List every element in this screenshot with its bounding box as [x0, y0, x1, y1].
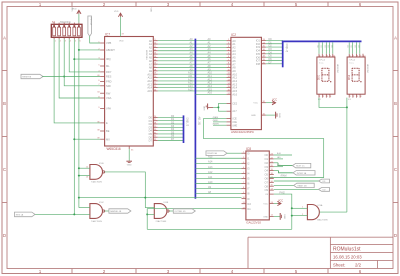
svg-text:IC6B: IC6B: [163, 202, 168, 204]
svg-text:2: 2: [353, 96, 354, 98]
op IC2 SRAM AS6C1024 body: [231, 33, 262, 134]
junction IC5A A: [291, 207, 293, 209]
wire IC6B output to flag: [169, 210, 173, 212]
labels A0-A15 left of bus: [188, 38, 193, 91]
junction S1-3/RES: [63, 76, 65, 78]
junction displays common: [346, 106, 348, 108]
svg-text:D4: D4: [331, 45, 333, 47]
flag RESET/B (bottom left): [15, 212, 36, 217]
op DIS2 7-segment display: [347, 54, 368, 101]
junction long row left: [78, 197, 80, 199]
svg-text:C: C: [394, 167, 397, 172]
wire PHI2 to IC5A input A: [292, 207, 308, 209]
wire RES flag to IC7 VPB pin: [90, 36, 100, 43]
svg-text:A12: A12: [208, 171, 213, 174]
wire RESET/B row to IC6C input B: [35, 213, 90, 215]
wire S1-6 net to IC6D input A: [79, 167, 90, 169]
svg-text:MU/T 1C: MU/T 1C: [296, 166, 305, 168]
svg-text:VDD: VDD: [72, 6, 74, 11]
svg-text:IRQ: IRQ: [106, 57, 111, 61]
junction IC6D A: [78, 167, 80, 169]
svg-text:VDD: VDD: [150, 8, 152, 13]
svg-text:DIS1: DIS1: [319, 74, 321, 80]
svg-text:D7: D7: [358, 45, 360, 47]
svg-text:1: 1: [319, 96, 320, 98]
svg-text:D7: D7: [149, 139, 153, 143]
gate IC6D NAND: [86, 163, 105, 184]
svg-text:37: 37: [122, 34, 125, 36]
svg-text:5: 5: [75, 41, 77, 43]
svg-text:VDD: VDD: [114, 11, 119, 13]
svg-text:RDY: RDY: [106, 70, 112, 74]
svg-text:7: 7: [323, 56, 324, 58]
svg-text:W65C816: W65C816: [145, 50, 147, 61]
svg-text:VCC: VCC: [278, 199, 283, 202]
svg-text:74ACT08N: 74ACT08N: [317, 219, 328, 222]
wires bus DB to DIS2 pins: [348, 42, 361, 54]
supply VDD arrow (DIP): [72, 9, 81, 14]
svg-text:D6: D6: [355, 45, 357, 47]
svg-text:DIS2: DIS2: [349, 74, 351, 80]
wire O0 with label A16: [274, 152, 292, 155]
svg-text:3: 3: [327, 96, 328, 98]
svg-text:1: 1: [350, 96, 351, 98]
svg-text:INTER 3A: INTER 3A: [297, 172, 307, 175]
op IC8 GAL22V10 body: [246, 147, 269, 225]
gate IC6B NAND: [154, 202, 169, 223]
svg-text:VCC: VCC: [272, 99, 277, 102]
svg-text:IC8: IC8: [246, 147, 251, 151]
svg-text:A17: A17: [232, 110, 237, 113]
svg-text:RES: RES: [106, 75, 112, 79]
svg-text:S1: S1: [52, 20, 56, 24]
svg-text:B: B: [394, 101, 397, 106]
wire IC6B input B: [147, 213, 154, 215]
svg-text:D2: D2: [325, 45, 327, 47]
svg-text:10: 10: [333, 56, 335, 58]
title block: [248, 237, 393, 268]
junction S1-5 at RESET/B row: [73, 213, 75, 215]
svg-text:/RAM: /RAM: [281, 174, 287, 177]
IC2 left pins A0-A16 and control: [226, 39, 237, 128]
ground GND (CE2 tie): [204, 104, 213, 111]
svg-text:3: 3: [65, 41, 67, 43]
svg-text:4: 4: [70, 41, 72, 43]
svg-text:I11: I11: [247, 207, 251, 211]
svg-text:O9: O9: [265, 188, 269, 192]
svg-text:O7: O7: [265, 180, 269, 184]
IC2 right pins IO1-IO8: [256, 39, 266, 66]
svg-text:W65C816: W65C816: [107, 147, 121, 151]
svg-text:E: E: [106, 121, 108, 125]
svg-text:D1: D1: [321, 45, 323, 47]
supply VCC (IC8): [271, 199, 284, 205]
flag MUX 1C: [293, 163, 311, 167]
wire S1-6 net to IC6D input B: [79, 175, 90, 177]
svg-text:Sheet:: Sheet:: [333, 262, 345, 267]
svg-text:O4: O4: [265, 169, 269, 173]
gate IC6C NAND: [90, 202, 105, 223]
svg-text:/WE: /WE: [232, 123, 237, 127]
svg-text:A14: A14: [208, 161, 213, 164]
bus DB[0..7] (horizontal to displays): [282, 40, 362, 42]
flag RESET (left): [21, 74, 43, 78]
wire displays common to IC5A output: [346, 107, 348, 212]
flag RAMT 4B: [294, 183, 315, 187]
svg-text:VCC: VCC: [263, 204, 268, 206]
svg-text:C: C: [3, 167, 6, 172]
IC8 left pins: [242, 151, 252, 211]
svg-text:MX: MX: [106, 137, 110, 141]
wire VDD to S1 pin6: [78, 14, 80, 23]
bus stubs A15-A8 to IC8: [195, 156, 241, 194]
supply VCC (IC2): [253, 99, 277, 105]
wires bus DB to DIS1 pins: [318, 42, 334, 54]
svg-text:9: 9: [330, 56, 331, 58]
svg-text:16.08.15 20:03: 16.08.15 20:03: [333, 254, 362, 259]
wire O2 to flag MUX: [274, 162, 278, 164]
junction S1-6 ABORT: [78, 49, 80, 51]
svg-text:6: 6: [350, 56, 351, 58]
svg-text:ML: ML: [106, 64, 110, 68]
svg-text:K K: K K: [318, 99, 322, 101]
svg-text:ABORT: ABORT: [106, 48, 115, 52]
svg-text:/DS: /DS: [277, 165, 281, 167]
svg-text:RAMT 4B: RAMT 4B: [298, 184, 308, 187]
gate IC5A AND: [302, 204, 328, 222]
ground GND (IC7): [126, 146, 134, 167]
svg-text:GND: GND: [283, 214, 285, 219]
dip switch S1: [51, 20, 82, 42]
junction S1-5 MX: [73, 138, 75, 140]
svg-text:IC6C: IC6C: [99, 202, 104, 204]
svg-text:13: 13: [86, 177, 89, 179]
bus DB[0..7] (left): [184, 115, 189, 143]
svg-text:A13: A13: [208, 166, 213, 169]
svg-text:/RAM: /RAM: [213, 116, 219, 119]
flag INTER 3A: [293, 171, 315, 175]
wire VDD to IC7 top: [120, 17, 122, 37]
wire S1-6 net to IC6C input A: [79, 207, 90, 209]
svg-text:A15: A15: [147, 89, 152, 93]
svg-text:2: 2: [323, 96, 324, 98]
svg-text:A10: A10: [208, 181, 213, 184]
wire IC6C output to flag: [105, 210, 109, 212]
xref flag RES (vertical): [88, 16, 93, 36]
svg-text:O8: O8: [265, 184, 269, 188]
wire CE2 tie net: [213, 103, 226, 111]
svg-text:D: D: [394, 233, 397, 238]
ground GND (IC8): [271, 213, 285, 220]
svg-text:A15: A15: [188, 88, 193, 91]
svg-text:IC2: IC2: [231, 33, 236, 37]
wire PHI2 from IC8: [274, 191, 292, 229]
svg-text:D3: D3: [328, 45, 330, 47]
svg-text:IC5A: IC5A: [318, 204, 323, 207]
svg-text:5: 5: [98, 64, 100, 66]
svg-text:GND: GND: [278, 113, 280, 118]
wire S1-3 to IC7 NMI: [64, 39, 100, 86]
svg-text:6: 6: [80, 41, 82, 43]
IC7 right pins A0-A15 and D0-D7: [147, 39, 157, 143]
svg-text:2/2: 2/2: [355, 262, 362, 267]
long net row to IC8 pin10: [79, 197, 242, 199]
bus DB[0..7] (right vertical): [282, 41, 284, 67]
svg-text:1: 1: [55, 41, 57, 43]
wire PHI2 to IC5A input B: [292, 215, 308, 217]
svg-text:6: 6: [98, 80, 100, 82]
svg-text:VCC: VCC: [253, 103, 258, 105]
flag OUTSEL: [173, 209, 195, 213]
bus A[0..15]: [195, 39, 200, 199]
labels A0-A15 right of bus: [208, 38, 213, 91]
svg-text:GND: GND: [127, 165, 132, 167]
svg-text:O1: O1: [265, 157, 269, 161]
svg-text:O2: O2: [265, 161, 269, 165]
wire S1-2 to IC7 VDA: [59, 39, 100, 98]
svg-text:DB[0..7]: DB[0..7]: [186, 118, 189, 127]
svg-text:RESET/B: RESET/B: [22, 77, 32, 79]
svg-text:/MWR: /MWR: [213, 123, 219, 125]
svg-text:7: 7: [353, 56, 354, 58]
svg-text:RAMSEL 4B: RAMSEL 4B: [110, 210, 122, 213]
svg-text:b c a: b c a: [319, 62, 323, 64]
svg-text:3: 3: [357, 96, 358, 98]
svg-text:34: 34: [97, 92, 100, 94]
svg-text:RES 1A: RES 1A: [89, 18, 92, 26]
svg-text:6: 6: [319, 56, 320, 58]
svg-text:I10: I10: [247, 202, 251, 206]
svg-text:B: B: [3, 101, 6, 106]
svg-text:HD1105O: HD1105O: [336, 64, 338, 73]
IC7 left pins: [97, 41, 115, 141]
wires D0-D7 IC7 to bus DB: [158, 115, 184, 141]
svg-text:PHI2: PHI2: [279, 191, 285, 194]
wire IC6D output right: [105, 172, 155, 208]
junction S1-5 IRQ: [73, 58, 75, 60]
svg-text:O5: O5: [265, 173, 269, 177]
svg-text:IC7: IC7: [105, 32, 110, 36]
svg-text:A16: A16: [208, 92, 213, 95]
wire O3 short: [274, 165, 283, 167]
wire /RAM from IC3 to IC2 /WE: [204, 119, 324, 178]
svg-text:A: A: [3, 36, 6, 41]
junction IC5A B: [291, 215, 293, 217]
wire DIS2 common down: [346, 98, 348, 108]
svg-text:VDD: VDD: [119, 41, 124, 43]
wires IO to bus DB right: [266, 38, 283, 64]
wire /WE stub with label: [213, 124, 226, 126]
svg-text:AS6C1024-55PC: AS6C1024-55PC: [231, 130, 255, 134]
wire S1-6 branch to IC7 ABORT: [79, 49, 100, 51]
flag OE2: [319, 188, 330, 192]
flag RDWR to IC8 pin1: [206, 151, 242, 156]
supply VDD arrow (IC7): [114, 11, 123, 17]
svg-text:GAL22V10: GAL22V10: [246, 221, 261, 225]
wire S1-6 vertical (to ABORT and gates): [78, 39, 80, 208]
svg-text:A11: A11: [208, 176, 213, 179]
svg-text:D4: D4: [348, 45, 350, 47]
svg-text:RES 1A: RES 1A: [16, 213, 24, 216]
svg-text:4: 4: [361, 96, 362, 98]
wires A0-A15 IC7 to IC2: [158, 41, 227, 91]
svg-text:O3: O3: [265, 165, 269, 169]
svg-text:D5: D5: [351, 45, 353, 47]
flag RAMSEL: [109, 209, 131, 213]
svg-text:HD1105O: HD1105O: [366, 64, 368, 73]
svg-text:/AS: /AS: [277, 156, 281, 159]
op IC7 CPU W65C816 body: [105, 32, 154, 151]
svg-text:OUTSEL 4D: OUTSEL 4D: [175, 211, 187, 213]
svg-text:74ACT00N: 74ACT00N: [155, 220, 166, 223]
wire O4 to flag INTER: [274, 170, 279, 172]
svg-text:9: 9: [360, 56, 361, 58]
svg-text:D0: D0: [318, 45, 320, 47]
wire DIS1 common down: [319, 98, 347, 108]
svg-text:RW: RW: [106, 91, 111, 95]
svg-text:GND: GND: [251, 115, 256, 117]
svg-text:O0: O0: [265, 153, 269, 157]
wire A16 label stub to IC2: [195, 93, 226, 95]
svg-text:DB[0..7]: DB[0..7]: [285, 44, 288, 53]
junction long row mid: [144, 197, 146, 199]
svg-text:D: D: [3, 233, 6, 238]
wire S1-5 branch to IC7 MX: [74, 138, 100, 140]
junction CE2 tie: [217, 106, 219, 108]
wire vertical to bottom row: [146, 209, 148, 230]
ground GND (IC2): [251, 112, 280, 119]
svg-text:O6: O6: [265, 177, 269, 181]
svg-text:VPA: VPA: [106, 107, 111, 111]
svg-text:8: 8: [357, 56, 358, 58]
op DIS1 7-segment display: [317, 54, 338, 101]
svg-text:CE2: CE2: [232, 102, 237, 105]
svg-text:9: 9: [98, 107, 100, 109]
svg-text:BE: BE: [106, 129, 110, 133]
svg-text:VPB: VPB: [106, 41, 111, 45]
svg-text:38: 38: [97, 129, 100, 131]
svg-text:GND: GND: [204, 105, 206, 110]
svg-text:10: 10: [363, 56, 365, 58]
svg-text:A16: A16: [232, 92, 237, 96]
svg-text:74ACT00N: 74ACT00N: [91, 220, 102, 223]
svg-text:35: 35: [131, 150, 134, 152]
junction IC6D B: [78, 175, 80, 177]
wire O8 to flag OE2: [274, 188, 319, 190]
wire IC5A output to displays net: [319, 211, 347, 213]
wire S1-1 to IC7 E: [54, 39, 100, 123]
wire S1-5 branch to IC7 IRQ: [74, 58, 100, 60]
svg-text:/MRD: /MRD: [213, 120, 219, 122]
flag OE1: [319, 179, 330, 183]
svg-text:IO8: IO8: [256, 62, 261, 66]
svg-text:NMI: NMI: [106, 84, 111, 88]
wire IC8 pin12 row: [147, 208, 241, 210]
svg-text:SW DIP-6: SW DIP-6: [60, 21, 71, 24]
svg-text:74ACT00N: 74ACT00N: [91, 181, 102, 184]
svg-text:PRD: PRD: [106, 80, 112, 84]
svg-text:8: 8: [327, 56, 328, 58]
svg-text:GND: GND: [263, 216, 268, 218]
svg-text:A[0..15]: A[0..15]: [198, 117, 201, 126]
svg-text:ROMulus1st: ROMulus1st: [333, 247, 361, 253]
IC8 right pins: [263, 153, 274, 218]
junction IC6B B: [146, 213, 148, 215]
wire O1 short: [274, 156, 283, 159]
svg-text:IC6D: IC6D: [99, 163, 104, 165]
svg-text:4: 4: [330, 96, 331, 98]
bottom long row: [147, 228, 292, 230]
wire /OE stub with label: [213, 121, 226, 123]
svg-text:b c a: b c a: [350, 62, 354, 64]
wire RESET flag to IC7 RES: [42, 76, 100, 78]
svg-text:K K: K K: [348, 99, 352, 101]
wire S1-5 vertical (to IRQ and gates): [73, 39, 75, 214]
wire S1-4 to IC7 RDY: [69, 39, 100, 72]
svg-text:VDA: VDA: [106, 96, 112, 100]
svg-text:2: 2: [60, 41, 62, 43]
wire O6 to flag OE1: [274, 180, 319, 182]
svg-text:A: A: [394, 36, 397, 41]
svg-text:A15: A15: [208, 156, 213, 159]
wire O7 to flag RAMT: [274, 184, 294, 186]
